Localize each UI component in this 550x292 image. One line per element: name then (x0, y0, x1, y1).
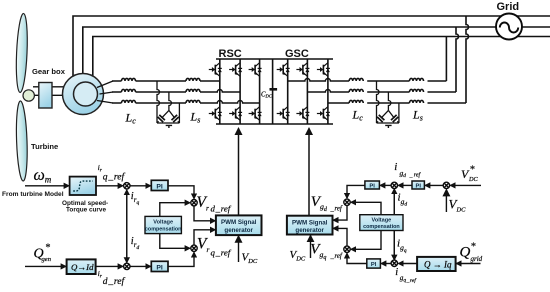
svg-text:Vr: Vr (197, 194, 209, 213)
svg-text:VDC: VDC (449, 197, 467, 214)
svg-text:Ls: Ls (190, 110, 201, 125)
svg-text:Turbine: Turbine (31, 142, 58, 151)
svg-text:VDC: VDC (290, 249, 306, 263)
svg-text:_ ref: _ ref (330, 206, 343, 213)
svg-text:q _ ref: q _ ref (103, 171, 126, 182)
svg-text:_ ref: _ ref (406, 277, 418, 284)
svg-text:Vgd: Vgd (311, 194, 328, 213)
svg-text:i: i (395, 267, 398, 278)
svg-text:Gear box: Gear box (32, 67, 66, 76)
svg-text:generator: generator (295, 227, 324, 234)
svg-text:Vgq: Vgq (310, 242, 326, 261)
svg-text:ird: ird (131, 236, 140, 251)
svg-text:PWM Signal: PWM Signal (221, 219, 257, 226)
svg-text:PWM Signal: PWM Signal (292, 219, 328, 226)
svg-text:gq: gq (400, 274, 407, 284)
svg-text:*: * (470, 165, 475, 176)
svg-text:gd: gd (400, 169, 407, 179)
svg-text:Lc: Lc (352, 108, 364, 123)
svg-text:igd: igd (398, 191, 408, 207)
svg-text:Q → Iq: Q → Iq (424, 259, 452, 269)
svg-text:q _ ref: q _ ref (211, 248, 232, 258)
svg-text:Q→Id: Q→Id (71, 262, 94, 272)
svg-text:Grid: Grid (497, 1, 520, 13)
svg-text:PI: PI (371, 262, 377, 268)
svg-text:ωm: ωm (34, 167, 52, 185)
svg-text:Voltage: Voltage (153, 220, 173, 226)
svg-text:Voltage: Voltage (372, 218, 392, 224)
svg-text:compensation: compensation (363, 224, 400, 230)
svg-text:i: i (394, 161, 397, 173)
svg-text:d _ ref: d _ ref (103, 276, 126, 287)
svg-text:generator: generator (224, 227, 253, 234)
svg-text:_ ref: _ ref (409, 172, 422, 179)
svg-text:RSC: RSC (219, 48, 242, 60)
svg-text:gen: gen (42, 256, 52, 263)
svg-text:*: * (471, 242, 476, 253)
svg-text:_ ref: _ ref (330, 253, 343, 260)
svg-text:irq: irq (131, 191, 140, 206)
svg-text:Q: Q (460, 245, 471, 261)
svg-text:VDC: VDC (242, 252, 258, 266)
svg-text:DC: DC (468, 176, 478, 183)
svg-text:Torque curve: Torque curve (66, 207, 106, 214)
svg-text:CDC: CDC (261, 91, 273, 98)
svg-text:igq: igq (397, 238, 407, 254)
svg-text:Lc: Lc (125, 111, 137, 126)
svg-text:Ls: Ls (412, 108, 423, 123)
svg-text:PI: PI (415, 183, 421, 189)
svg-text:Vr: Vr (197, 236, 209, 255)
svg-text:d _ ref: d _ ref (211, 204, 232, 214)
svg-text:grid: grid (471, 255, 483, 263)
svg-text:GSC: GSC (285, 48, 309, 60)
svg-text:*: * (45, 243, 50, 254)
svg-text:PI: PI (369, 183, 375, 189)
svg-text:compensation: compensation (145, 226, 182, 232)
svg-text:From turbine Model: From turbine Model (2, 191, 64, 198)
